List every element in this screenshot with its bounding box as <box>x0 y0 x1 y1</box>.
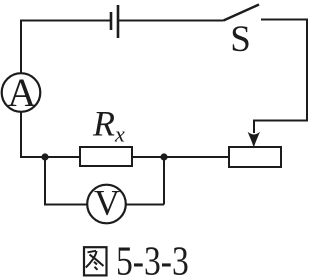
wire voltmeter left vertical <box>44 156 46 205</box>
rheostat RP box <box>229 147 281 167</box>
wire resistor left to node A <box>45 156 80 158</box>
svg-text:S: S <box>230 19 251 60</box>
wire left vertical lower <box>20 112 22 158</box>
svg-text:V: V <box>94 183 120 223</box>
wire top-left horizontal <box>21 20 111 22</box>
svg-text:5-3-3: 5-3-3 <box>116 240 189 280</box>
wire left corner to node A <box>20 156 45 158</box>
wire right vertical <box>306 19 308 122</box>
switch S lever <box>224 5 260 21</box>
node A junction dot <box>41 153 48 160</box>
ammeter U1 circle <box>2 73 41 112</box>
wire left vertical upper <box>20 20 22 75</box>
caption figure glyph (tu) <box>84 247 107 275</box>
battery B1 long plate (positive) <box>117 5 120 38</box>
svg-text:A: A <box>7 70 36 115</box>
svg-text:Rx: Rx <box>92 104 125 147</box>
wire voltmeter bottom right <box>125 204 164 206</box>
wire rheostat wiper horizontal <box>254 120 308 122</box>
wire rheostat wiper shaft <box>253 120 255 134</box>
wire battery to switch <box>118 20 224 22</box>
wire node B to resistor right <box>132 156 164 158</box>
wire switch right horizontal <box>261 19 308 21</box>
wire rheostat to node B <box>164 156 229 158</box>
wire voltmeter bottom left <box>44 204 88 206</box>
battery B1 short plate (negative) <box>110 12 113 30</box>
wire voltmeter right vertical <box>163 156 165 205</box>
node B junction dot <box>160 153 167 160</box>
voltmeter U2 circle <box>87 185 126 224</box>
rheostat wiper arrowhead <box>248 132 260 148</box>
resistor Rx box <box>80 147 132 166</box>
